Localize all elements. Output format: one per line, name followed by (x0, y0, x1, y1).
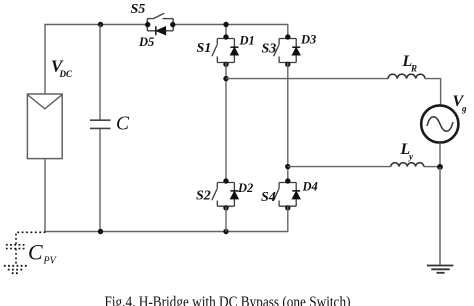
wire top rail (left of S5) (45, 24, 147, 26)
label S3 (262, 42, 277, 57)
node junction bottom rail / S2 leg (223, 229, 228, 234)
label S5 (131, 2, 146, 17)
svg-text:S4: S4 (261, 190, 276, 205)
svg-text:g: g (461, 104, 467, 114)
label S2 (196, 189, 211, 204)
wire left leg lower (PV panel to bottom rail) (44, 159, 46, 233)
node S2 bottom (223, 205, 228, 210)
wire capacitor C lower leg (99, 128, 101, 231)
switch S5 box (147, 13, 173, 31)
wire Ly to node (424, 166, 440, 168)
ground (427, 266, 454, 273)
label C (116, 114, 130, 135)
wire Vg bottom to node (439, 143, 441, 167)
svg-text:DC: DC (59, 69, 73, 79)
label Ly (400, 141, 415, 162)
switch S5 terminal node right (170, 22, 175, 27)
AC source Vg (421, 105, 458, 142)
label Vg (453, 93, 468, 114)
ground C_PV (dashed earth) (4, 266, 28, 273)
wire leg B lower (S4 to bottom rail) (287, 206, 289, 232)
wire phase B to inductor Ly (288, 166, 391, 168)
diode D1 (pointing up) (230, 47, 238, 55)
diode D4 (pointing up) (292, 191, 300, 199)
wire leg B upper (top rail corner to S3) (287, 24, 289, 39)
capacitor C_PV lower dashed wire (15, 249, 17, 264)
svg-text:C: C (28, 240, 43, 265)
wire phase A to inductor LR (226, 78, 388, 80)
node S4 bottom (285, 205, 290, 210)
switch S5 terminal node left (145, 22, 150, 27)
wire bottom rail (44, 231, 287, 233)
node junction bottom rail / capacitor C (98, 229, 103, 234)
svg-text:D4: D4 (302, 180, 318, 194)
node junction top rail / capacitor C (98, 22, 103, 27)
svg-text:D5: D5 (138, 35, 154, 49)
switch S1 with diode D1 cell (212, 39, 235, 63)
switch S3 with diode D3 cell (274, 39, 297, 63)
label D1 (239, 34, 255, 48)
label D5 (138, 35, 154, 49)
svg-text:S5: S5 (131, 2, 146, 17)
label D3 (300, 33, 316, 47)
node S3 top (285, 34, 290, 39)
node S3 bottom (285, 62, 290, 67)
wire left leg upper (top rail down to PV panel) (44, 24, 46, 94)
label D2 (237, 181, 253, 195)
wire node to ground (439, 167, 441, 266)
diode D2 (pointing up) (230, 191, 238, 199)
label V_DC (51, 57, 73, 80)
label S1 (197, 41, 212, 56)
label LR (402, 53, 418, 74)
switch S2 with diode D2 cell (212, 183, 235, 207)
label C_PV (28, 240, 58, 267)
node junction Ly / Vg (437, 164, 443, 170)
capacitor C_PV dashed connection wire (16, 232, 46, 244)
caption Fig.4 (105, 294, 351, 306)
node junction top rail / leg A (223, 22, 228, 27)
node phase A output (223, 76, 228, 81)
node S1 bottom (223, 62, 228, 67)
svg-text:S3: S3 (262, 42, 277, 57)
wire leg A lower (S2 to bottom rail) (225, 206, 227, 231)
inductor Ly (391, 163, 424, 167)
AC source Vg sine wave (427, 117, 453, 132)
inductor LR (388, 74, 425, 78)
node S4 top (285, 178, 290, 183)
wire leg A upper (top rail to S1) (225, 25, 227, 39)
node phase B output (285, 164, 290, 169)
switch S4 with diode D4 cell (274, 183, 297, 207)
label S4 (261, 190, 276, 205)
wire leg B middle (S3 bottom to S4 top) (287, 63, 289, 183)
svg-text:Fig.4. H-Bridge with DC Bypass: Fig.4. H-Bridge with DC Bypass (one Swit… (105, 294, 351, 306)
svg-text:C: C (116, 114, 130, 135)
wire top rail (right of S5 to S3 corner) (173, 24, 288, 26)
node S1 top (223, 34, 228, 39)
svg-text:D2: D2 (237, 181, 253, 195)
svg-text:R: R (410, 64, 417, 74)
capacitor C_PV plates (dashed) (6, 245, 25, 249)
diode D3 (pointing up) (292, 47, 300, 55)
PV panel (V_DC source) (27, 94, 62, 159)
svg-text:D1: D1 (239, 34, 255, 48)
svg-text:D3: D3 (300, 33, 316, 47)
label D4 (302, 180, 318, 194)
node S2 top (223, 178, 228, 183)
wire LR to Vg top (425, 79, 441, 106)
svg-text:S2: S2 (196, 189, 211, 204)
wire leg A middle (S1 bottom to S2 top) (225, 63, 227, 183)
svg-text:PV: PV (43, 256, 58, 267)
wire capacitor C upper leg (99, 25, 101, 121)
capacitor C plates (90, 120, 111, 128)
svg-text:S1: S1 (197, 41, 212, 56)
diode D5 (in S5 box, pointing left) (156, 26, 166, 35)
